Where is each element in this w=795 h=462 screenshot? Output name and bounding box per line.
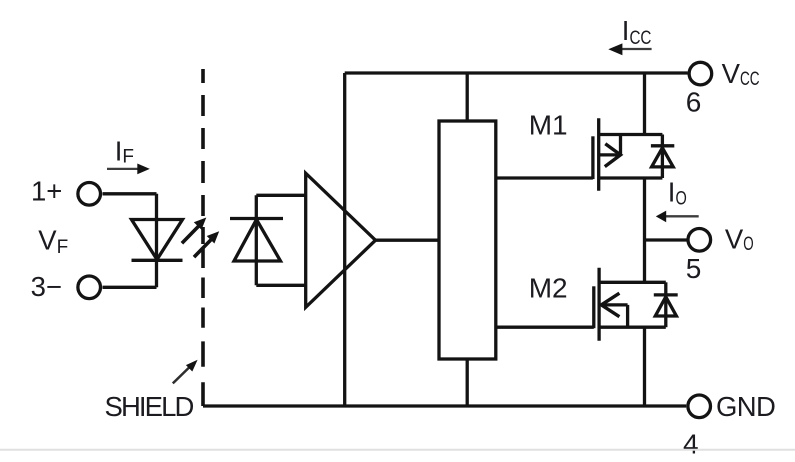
wire M1 drain to Vcc rail xyxy=(643,73,646,135)
driver block rectangle xyxy=(439,121,496,359)
LED D1 triangle xyxy=(132,220,183,260)
wire M2 source to GND rail xyxy=(643,327,646,406)
svg-text:VCC: VCC xyxy=(722,58,760,90)
svg-text:SHIELD: SHIELD xyxy=(105,391,194,422)
svg-text:IF: IF xyxy=(115,136,134,168)
transistor Q1 (M1) gate plate xyxy=(591,136,594,179)
body diode D3 of M1 triangle xyxy=(652,148,674,167)
transistor Q2 (M2) body box bottom xyxy=(599,326,666,329)
body diode D4 of M2 triangle xyxy=(655,297,676,316)
body diode D4 of M2 bar xyxy=(654,293,678,296)
svg-text:3−: 3− xyxy=(31,271,62,302)
transistor Q1 (M1) body box top xyxy=(599,133,663,136)
transistor Q1 (M1) channel bar xyxy=(597,118,600,191)
photodiode PD triangle xyxy=(234,220,281,262)
wire Vo node to pin 5 xyxy=(645,238,689,241)
transistor Q2 (M2) channel bar xyxy=(597,268,600,341)
shield dashed line xyxy=(201,69,205,406)
wire pin3 to LED cathode xyxy=(103,286,157,289)
wire gate M1 xyxy=(496,176,593,179)
wire photodiode to amp bottom xyxy=(256,284,305,287)
wire driver bottom to GND rail xyxy=(466,359,469,406)
arrow Icc current xyxy=(608,43,651,55)
op-amp buffer U1 triangle xyxy=(306,173,376,307)
wire photodiode vertical (passes through triangle) xyxy=(255,195,258,285)
arrow Io current xyxy=(656,211,699,223)
svg-text:VF: VF xyxy=(38,224,68,258)
wire M2 drain to Vo node xyxy=(643,240,646,282)
svg-text:VO: VO xyxy=(725,224,754,256)
svg-text:1+: 1+ xyxy=(31,176,62,207)
transistor Q1 (M1) substrate arrow xyxy=(599,135,621,167)
transistor Q2 (M2) gate plate xyxy=(592,286,595,328)
photodiode PD cathode bar xyxy=(230,217,283,220)
svg-text:GND: GND xyxy=(716,391,775,422)
Vcc top rail xyxy=(345,71,688,74)
arrow shield pointer xyxy=(173,360,198,384)
body diode D3 of M1 vertical xyxy=(661,135,664,179)
arrow If current xyxy=(107,164,150,175)
light emission arrow 2 xyxy=(194,231,219,257)
transistor Q2 (M2) body box top xyxy=(599,281,666,284)
svg-text:ICC: ICC xyxy=(622,15,652,49)
wire M1 source to Vo node xyxy=(643,178,646,240)
wire photodiode to amp top xyxy=(256,194,305,197)
table border line bottom xyxy=(0,449,795,451)
svg-text:5: 5 xyxy=(686,253,702,284)
pin 4 GND terminal circle xyxy=(688,395,711,418)
wire LED anode vertical (passes through triangle) xyxy=(155,194,158,287)
transistor Q1 (M1) body box bottom xyxy=(599,176,663,179)
GND bottom rail xyxy=(203,404,686,407)
wire amp supply vertical xyxy=(343,73,346,406)
pin 6 Vcc terminal circle xyxy=(689,62,712,85)
svg-text:6: 6 xyxy=(686,87,702,118)
wire pin1 to LED anode xyxy=(103,192,157,195)
body diode D4 of M2 vertical xyxy=(664,282,667,327)
light emission arrow 1 xyxy=(182,218,206,244)
pin 5 Vo terminal circle xyxy=(688,229,711,252)
svg-text:M1: M1 xyxy=(529,109,568,140)
svg-text:M2: M2 xyxy=(529,273,568,304)
transistor Q2 (M2) substrate arrow xyxy=(601,293,627,327)
pin 3- terminal circle xyxy=(78,276,101,299)
svg-text:IO: IO xyxy=(668,176,687,209)
body diode D3 of M1 bar xyxy=(651,144,674,147)
pin 1+ terminal circle xyxy=(78,183,101,206)
wire driver top to Vcc rail xyxy=(466,73,469,121)
wire amp output to driver block xyxy=(376,239,440,242)
svg-text:4: 4 xyxy=(683,429,699,460)
LED D1 cathode bar xyxy=(132,259,183,262)
wire gate M2 xyxy=(496,326,594,329)
